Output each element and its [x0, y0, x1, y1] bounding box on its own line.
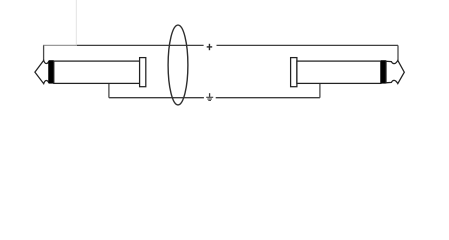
wire: shield conductor, left of ground	[109, 97, 204, 99]
left plug J1: sleeve shaft	[54, 61, 140, 83]
wire: hot (+) conductor, right of plus	[217, 44, 399, 46]
right plug J2: tip	[386, 60, 404, 83]
wire: hot (+) conductor, left of plus	[77, 44, 204, 46]
ground symbol	[206, 93, 213, 100]
faint vertical rule	[75, 0, 77, 45]
wire: right plug tip to hot conductor	[397, 45, 399, 60]
left plug J1: insulator ring (black band)	[49, 60, 54, 83]
wire: shield conductor, right of ground	[216, 97, 320, 99]
wire: left plug sleeve to shield conductor	[108, 83, 110, 97]
node +: plus label on hot conductor	[207, 44, 213, 50]
wire: hot (+) conductor, light segment	[43, 44, 77, 46]
left plug J1: collar	[140, 58, 146, 87]
wire: left plug tip to hot conductor	[43, 45, 45, 60]
left plug J1: tip	[35, 60, 49, 83]
right plug J2: insulator ring (black band)	[381, 60, 387, 83]
right plug J2: sleeve shaft	[297, 61, 381, 83]
right plug J2: collar	[291, 58, 297, 87]
wire: right plug sleeve to shield conductor	[319, 83, 321, 97]
cable loop ellipse	[168, 25, 188, 105]
